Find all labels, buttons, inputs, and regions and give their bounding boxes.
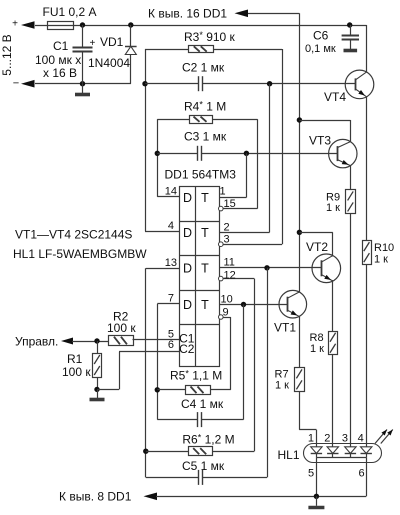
svg-text:15: 15 <box>224 198 236 210</box>
svg-text:+: + <box>90 38 96 49</box>
svg-text:1: 1 <box>308 433 314 445</box>
svg-text:T: T <box>201 298 209 312</box>
svg-text:R4* 1 М: R4* 1 М <box>184 100 226 114</box>
svg-text:0,1 мк: 0,1 мк <box>305 43 336 55</box>
svg-text:3: 3 <box>224 233 230 245</box>
svg-text:100 мк х: 100 мк х <box>35 53 81 67</box>
svg-text:C1: C1 <box>53 39 69 53</box>
svg-text:DD1 564ТМ3: DD1 564ТМ3 <box>165 168 237 182</box>
svg-text:5...12 В: 5...12 В <box>0 34 14 75</box>
svg-text:11: 11 <box>224 256 235 268</box>
svg-text:х 16 В: х 16 В <box>43 66 77 80</box>
svg-text:R10: R10 <box>374 242 394 254</box>
svg-text:7: 7 <box>168 293 174 305</box>
svg-text:6: 6 <box>358 468 364 480</box>
svg-text:2: 2 <box>224 221 230 233</box>
svg-text:D: D <box>183 298 192 312</box>
svg-text:13: 13 <box>165 257 177 269</box>
svg-text:D: D <box>183 191 192 205</box>
svg-text:D: D <box>183 262 192 276</box>
svg-text:К выв. 16 DD1: К выв. 16 DD1 <box>148 7 227 21</box>
svg-text:12: 12 <box>224 269 236 281</box>
svg-text:C5 1 мк: C5 1 мк <box>182 459 225 473</box>
svg-text:R5* 1,1 М: R5* 1,1 М <box>170 369 222 383</box>
svg-text:T: T <box>201 226 209 240</box>
svg-text:C2 1 мк: C2 1 мк <box>182 61 225 75</box>
svg-text:C2: C2 <box>179 342 195 356</box>
svg-text:100 к: 100 к <box>62 365 91 379</box>
svg-text:+: + <box>12 19 18 30</box>
svg-text:2: 2 <box>324 433 330 445</box>
svg-text:D: D <box>183 226 192 240</box>
svg-text:FU1 0,2 А: FU1 0,2 А <box>43 5 97 19</box>
svg-text:VD1: VD1 <box>100 35 124 49</box>
svg-text:VT1: VT1 <box>274 321 296 335</box>
svg-text:R6* 1,2 М: R6* 1,2 М <box>182 433 234 447</box>
svg-text:R3* 910 к: R3* 910 к <box>184 30 236 44</box>
svg-text:5: 5 <box>308 468 314 480</box>
svg-text:3: 3 <box>342 433 348 445</box>
svg-text:10: 10 <box>221 294 233 306</box>
svg-text:VT3: VT3 <box>309 134 331 148</box>
svg-text:VT1—VT4 2SC2144S: VT1—VT4 2SC2144S <box>15 228 132 242</box>
svg-text:VT4: VT4 <box>324 90 346 104</box>
svg-text:Управл.: Управл. <box>15 335 58 349</box>
svg-text:T: T <box>201 191 209 205</box>
svg-text:HL1: HL1 <box>278 448 300 462</box>
svg-text:6: 6 <box>168 339 174 351</box>
svg-text:VT2: VT2 <box>306 240 328 254</box>
svg-text:−: − <box>13 78 19 90</box>
svg-text:1 к: 1 к <box>326 202 340 214</box>
svg-text:C6: C6 <box>313 29 329 43</box>
svg-text:1 к: 1 к <box>374 254 388 266</box>
svg-text:R1: R1 <box>67 352 83 366</box>
svg-text:1N4004: 1N4004 <box>88 56 130 70</box>
svg-text:T: T <box>201 262 209 276</box>
svg-text:C3 1 мк: C3 1 мк <box>184 130 227 144</box>
svg-text:4: 4 <box>358 433 364 445</box>
svg-text:HL1 LF-5WAEMBGMBW: HL1 LF-5WAEMBGMBW <box>13 247 147 261</box>
svg-text:C4 1 мк: C4 1 мк <box>181 397 224 411</box>
svg-text:100 к: 100 к <box>107 321 136 335</box>
svg-text:4: 4 <box>168 220 174 232</box>
svg-text:1 к: 1 к <box>275 380 289 392</box>
svg-text:9: 9 <box>223 307 229 319</box>
svg-text:14: 14 <box>165 185 177 197</box>
svg-text:К выв. 8 DD1: К выв. 8 DD1 <box>59 490 132 504</box>
svg-text:1: 1 <box>220 186 226 198</box>
svg-text:1 к: 1 к <box>310 343 324 355</box>
